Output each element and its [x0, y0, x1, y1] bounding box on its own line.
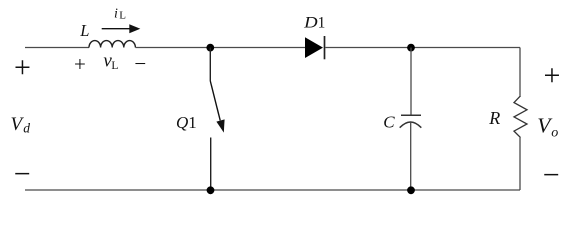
- wire: capacitor branch lower: [410, 122, 412, 190]
- svg-text:+: +: [14, 51, 31, 84]
- capacitor C plates: [400, 115, 422, 127]
- svg-text:d: d: [23, 121, 30, 136]
- wire: bottom rail: [25, 189, 520, 191]
- svg-text:1: 1: [318, 14, 326, 31]
- wire: right branch upper (corner down to resistor): [519, 48, 521, 96]
- inductor L (coil): [89, 41, 135, 48]
- switch Q1 blade with arrowhead: [210, 81, 224, 133]
- svg-text:Q: Q: [176, 113, 188, 132]
- svg-text:L: L: [111, 60, 118, 72]
- wire: capacitor branch upper: [410, 48, 412, 115]
- svg-text:1: 1: [188, 113, 197, 132]
- svg-text:−: −: [14, 157, 31, 190]
- node C junction dot (switch/bottom rail): [207, 186, 215, 194]
- node D junction dot (capacitor/bottom rail): [407, 186, 415, 194]
- svg-text:+: +: [544, 59, 561, 92]
- diode D1: [305, 36, 325, 59]
- svg-text:C: C: [383, 113, 395, 132]
- node A junction dot (switch/top rail): [206, 44, 214, 52]
- svg-text:i: i: [114, 6, 118, 21]
- svg-text:−: −: [134, 51, 146, 75]
- svg-text:R: R: [488, 108, 500, 128]
- switch Q1 lower stub: [210, 138, 212, 191]
- wire: right branch lower (resistor down to bottom rail): [519, 138, 521, 190]
- switch Q1 upper stub: [209, 48, 211, 81]
- wire: top rail diode to right corner: [325, 47, 520, 49]
- svg-text:+: +: [74, 52, 86, 76]
- svg-text:−: −: [543, 159, 560, 192]
- wire: top rail left segment (input + to inductor): [25, 47, 89, 49]
- current arrow iL: [102, 24, 141, 33]
- resistor R zigzag: [514, 96, 527, 138]
- svg-text:D: D: [303, 14, 318, 31]
- node B junction dot (capacitor/top rail): [407, 44, 415, 52]
- svg-text:L: L: [79, 21, 89, 40]
- svg-text:L: L: [119, 9, 126, 21]
- wire: top rail inductor to diode: [136, 47, 306, 49]
- svg-text:o: o: [551, 126, 558, 141]
